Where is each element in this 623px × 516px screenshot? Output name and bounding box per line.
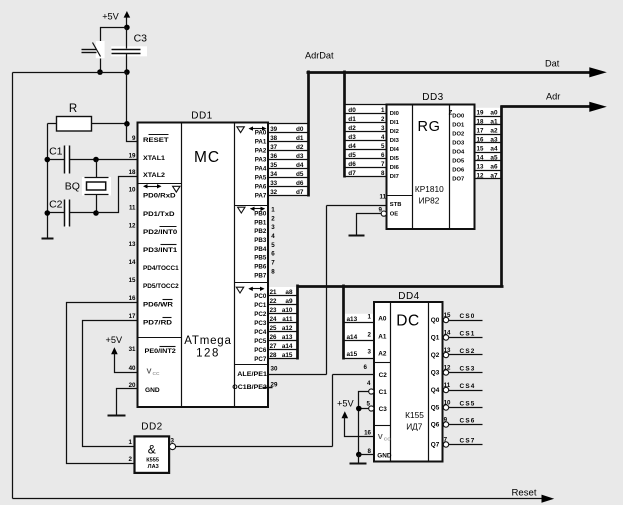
DD4 pin name C3 with bubble, pin number 5 bbox=[367, 401, 388, 414]
svg-text:d0: d0 bbox=[348, 107, 356, 114]
svg-text:31: 31 bbox=[129, 346, 136, 353]
svg-text:PA3: PA3 bbox=[255, 157, 267, 164]
svg-text:PB1: PB1 bbox=[254, 219, 267, 226]
svg-text:39: 39 bbox=[270, 126, 277, 133]
svg-text:16: 16 bbox=[364, 430, 371, 437]
svg-text:a6: a6 bbox=[490, 163, 498, 170]
svg-text:d4: d4 bbox=[296, 162, 304, 169]
DD4 pin name C1 with bubble, pin number 4 bbox=[367, 380, 387, 396]
svg-text:PB3: PB3 bbox=[254, 237, 267, 244]
svg-text:21: 21 bbox=[270, 289, 277, 296]
svg-text:КР1810: КР1810 bbox=[415, 184, 444, 194]
svg-text:30: 30 bbox=[271, 366, 278, 373]
svg-text:13: 13 bbox=[129, 241, 136, 248]
svg-text:PB7: PB7 bbox=[254, 272, 267, 279]
svg-text:1: 1 bbox=[381, 107, 385, 114]
DD1 pin name GND bbox=[145, 387, 160, 394]
svg-text:Q4: Q4 bbox=[431, 387, 440, 394]
svg-text:К555: К555 bbox=[146, 457, 159, 463]
DD1 pin name PD2/INT0 bbox=[143, 227, 178, 236]
DD1 port C direction marker bbox=[236, 287, 264, 293]
svg-text:17: 17 bbox=[129, 313, 136, 320]
svg-text:DD1: DD1 bbox=[191, 111, 213, 122]
svg-text:MC: MC bbox=[194, 149, 220, 166]
net cells a8-a15 (DD1 PC to address bus) bbox=[269, 287, 298, 359]
DD3 pin name OE with inversion bubble, pin number 9 bbox=[379, 206, 399, 217]
svg-text:Q3: Q3 bbox=[431, 370, 440, 377]
svg-text:16: 16 bbox=[477, 136, 484, 143]
svg-text:C3: C3 bbox=[379, 406, 388, 413]
svg-text:13: 13 bbox=[477, 163, 484, 170]
svg-text:XTAL2: XTAL2 bbox=[143, 172, 166, 179]
svg-text:DD2: DD2 bbox=[141, 422, 163, 433]
DD1 left pin numbers 9,19,18,10-17,31,40,20 bbox=[129, 135, 136, 389]
svg-text:25: 25 bbox=[270, 325, 277, 332]
svg-text:PA1: PA1 bbox=[255, 139, 267, 146]
DD3 function label RG bbox=[418, 119, 441, 135]
ground symbol (DD3 OE) bbox=[349, 235, 365, 237]
svg-text:4: 4 bbox=[271, 233, 275, 240]
bus AdrDat horizontal (Dat arrow) bbox=[305, 51, 607, 78]
svg-text:PA0: PA0 bbox=[255, 130, 267, 137]
svg-text:18: 18 bbox=[129, 169, 136, 176]
svg-text:a13: a13 bbox=[282, 334, 293, 341]
capacitor C3 bbox=[111, 28, 147, 73]
net cells a13-a15 (bus to DD4 inputs) bbox=[344, 314, 375, 359]
svg-text:PB0: PB0 bbox=[254, 210, 267, 217]
DD1 pin name PD6/WR bbox=[143, 300, 174, 309]
svg-text:К155: К155 bbox=[405, 410, 424, 420]
wire: junction to DD1 RESET pin 9 bbox=[127, 124, 138, 142]
svg-text:Q5: Q5 bbox=[431, 405, 440, 412]
DD1 type label ATmega 128 bbox=[184, 335, 231, 360]
svg-text:a15: a15 bbox=[282, 352, 293, 359]
svg-text:&: & bbox=[148, 443, 156, 457]
svg-text:OE: OE bbox=[390, 212, 399, 218]
svg-text:1: 1 bbox=[271, 206, 275, 213]
wire: XTAL2 pin 18 to crystal bottom bbox=[97, 177, 138, 213]
svg-text:PD4/TOCC1: PD4/TOCC1 bbox=[143, 265, 179, 272]
net cells d0-d7 (DD1 PA to AdrDat bus) bbox=[269, 124, 309, 196]
svg-text:2: 2 bbox=[271, 215, 275, 222]
DD1 pin name PD4/TOCC1 bbox=[143, 265, 179, 272]
svg-text:C1: C1 bbox=[49, 146, 63, 158]
svg-text:DD3: DD3 bbox=[422, 92, 444, 103]
svg-text:5: 5 bbox=[271, 242, 275, 249]
svg-text:23: 23 bbox=[270, 307, 277, 314]
svg-text:CS1: CS1 bbox=[460, 331, 476, 338]
svg-text:2: 2 bbox=[368, 332, 372, 339]
svg-text:PC4: PC4 bbox=[254, 329, 267, 336]
svg-text:Q2: Q2 bbox=[431, 352, 440, 359]
svg-text:ИР82: ИР82 bbox=[419, 196, 440, 206]
resistor R bbox=[48, 103, 127, 131]
svg-text:a1: a1 bbox=[490, 118, 498, 125]
svg-text:a9: a9 bbox=[285, 298, 293, 305]
svg-text:PD6/WR: PD6/WR bbox=[143, 301, 174, 308]
svg-text:ATmega: ATmega bbox=[184, 335, 231, 347]
svg-text:d3: d3 bbox=[296, 153, 304, 160]
svg-text:PC5: PC5 bbox=[254, 338, 267, 345]
wire: +5V junction to protection-diode branch bbox=[101, 28, 127, 42]
svg-text:DO2: DO2 bbox=[452, 132, 464, 138]
DD3 type label KR1810 IR82 bbox=[415, 184, 444, 206]
wire: DD2 output pin3 to DD4 C2 pin6 bbox=[176, 375, 375, 447]
DD3 pin names DO0-DO7 bbox=[452, 114, 465, 183]
DD2 pin numbers 1,2,3 bbox=[129, 437, 175, 463]
svg-text:37: 37 bbox=[270, 144, 277, 151]
svg-text:d2: d2 bbox=[348, 125, 356, 132]
svg-text:10: 10 bbox=[129, 187, 136, 194]
svg-text:CC: CC bbox=[153, 371, 160, 377]
svg-text:PA7: PA7 bbox=[255, 193, 267, 200]
svg-text:DO6: DO6 bbox=[452, 168, 465, 174]
svg-text:GND: GND bbox=[377, 453, 392, 460]
svg-text:6: 6 bbox=[364, 364, 368, 371]
svg-text:CC: CC bbox=[384, 437, 391, 443]
svg-text:a5: a5 bbox=[490, 154, 498, 161]
svg-text:RESET: RESET bbox=[143, 137, 169, 144]
DD1 pin number 30 bbox=[271, 366, 278, 373]
wire: ground rail for R, C1, C2 bbox=[47, 124, 49, 239]
svg-text:DI5: DI5 bbox=[390, 156, 400, 162]
svg-text:DO4: DO4 bbox=[452, 150, 465, 156]
svg-text:7: 7 bbox=[381, 161, 385, 168]
svg-text:C2: C2 bbox=[379, 372, 388, 379]
svg-text:CS5: CS5 bbox=[460, 401, 476, 408]
bus address horizontal (lower) bbox=[297, 285, 504, 288]
DD2 output inversion bubble bbox=[169, 444, 175, 450]
svg-text:PA6: PA6 bbox=[255, 184, 267, 191]
svg-text:PC0: PC0 bbox=[254, 293, 267, 300]
svg-text:AdrDat: AdrDat bbox=[305, 51, 334, 61]
svg-text:d7: d7 bbox=[296, 189, 304, 196]
svg-text:3: 3 bbox=[271, 224, 275, 231]
svg-text:27: 27 bbox=[270, 343, 277, 350]
bus branch to PC cells a8-a15 bbox=[296, 285, 299, 360]
svg-text:+5V: +5V bbox=[102, 12, 119, 22]
svg-text:12: 12 bbox=[444, 365, 451, 372]
svg-text:CS7: CS7 bbox=[460, 438, 476, 445]
svg-text:a0: a0 bbox=[490, 109, 498, 116]
svg-text:OC1B/PE2: OC1B/PE2 bbox=[232, 384, 267, 391]
svg-text:19: 19 bbox=[129, 153, 136, 160]
DD4 type label K155 ID7 bbox=[405, 410, 424, 432]
IC DD1 -- microcontroller MC ATmega128 chip body bbox=[138, 111, 269, 408]
wire: diode to reset rail bbox=[100, 59, 102, 73]
svg-text:CS2: CS2 bbox=[460, 348, 476, 355]
svg-text:19: 19 bbox=[477, 109, 484, 116]
node: C2 junction dots bbox=[45, 210, 99, 216]
svg-text:PD2/INT0: PD2/INT0 bbox=[143, 229, 178, 236]
svg-text:PB5: PB5 bbox=[254, 255, 267, 262]
svg-text:Adr: Adr bbox=[546, 91, 560, 101]
net cells d0-d7 (bus to DD3 inputs) bbox=[345, 105, 387, 177]
svg-text:15: 15 bbox=[477, 145, 484, 152]
svg-text:13: 13 bbox=[444, 347, 451, 354]
svg-text:18: 18 bbox=[477, 118, 484, 125]
svg-text:d7: d7 bbox=[348, 170, 356, 177]
capacitor C2 bbox=[48, 199, 97, 228]
power +5V supply arrow (top) bbox=[102, 11, 130, 28]
svg-text:ЛА3: ЛА3 bbox=[148, 464, 159, 470]
svg-text:DI0: DI0 bbox=[390, 111, 399, 117]
power +5V supply arrow (DD1 Vcc) bbox=[105, 335, 137, 373]
DD1 pin number 29 bbox=[271, 382, 278, 389]
DD1 pin names PA0-PA7 bbox=[255, 130, 267, 200]
IC DD3 -- register RG KR1810 IR82 chip body bbox=[387, 92, 475, 229]
DD3 pin names DI0-DI7 bbox=[390, 111, 400, 180]
svg-text:DO5: DO5 bbox=[452, 159, 465, 165]
DD1 port D direction marker bbox=[143, 184, 180, 192]
DD4 pin name Vcc, pin number 16 bbox=[364, 430, 391, 443]
node: C1 junction dots bbox=[45, 157, 99, 163]
svg-text:PB6: PB6 bbox=[254, 264, 267, 271]
wire: Reset line to arrow bbox=[13, 488, 555, 503]
ground symbol (crystal circuit) bbox=[42, 238, 54, 240]
DD3 pin name STB and pin number 11 bbox=[380, 194, 402, 208]
svg-text:PC3: PC3 bbox=[254, 320, 267, 327]
svg-text:a14: a14 bbox=[347, 334, 358, 341]
svg-text:14: 14 bbox=[129, 259, 136, 266]
svg-text:d2: d2 bbox=[296, 144, 304, 151]
svg-text:d6: d6 bbox=[296, 180, 304, 187]
DD1 pin name PD7/RD bbox=[143, 318, 173, 327]
svg-text:V: V bbox=[378, 432, 383, 441]
svg-text:a8: a8 bbox=[285, 289, 293, 296]
svg-text:ALE/PE1: ALE/PE1 bbox=[237, 371, 267, 378]
svg-text:PB2: PB2 bbox=[254, 228, 267, 235]
svg-text:6: 6 bbox=[271, 251, 275, 258]
svg-text:C1: C1 bbox=[379, 389, 388, 396]
svg-text:DI7: DI7 bbox=[390, 174, 399, 180]
svg-text:2: 2 bbox=[381, 116, 385, 123]
svg-text:PA2: PA2 bbox=[255, 148, 267, 155]
svg-text:d5: d5 bbox=[296, 171, 304, 178]
wire: DD1 ALE/PE1 pin30 to DD3 STB pin11 bbox=[269, 206, 387, 375]
DD1 pin name PD3/INT1 bbox=[143, 245, 178, 255]
crystal BQ bbox=[65, 160, 111, 213]
svg-text:V: V bbox=[147, 367, 152, 376]
svg-text:DI2: DI2 bbox=[390, 129, 399, 135]
svg-text:DI4: DI4 bbox=[390, 147, 400, 153]
svg-text:C3: C3 bbox=[134, 33, 148, 45]
DD1 pin name ALE/PE1 bbox=[237, 371, 267, 378]
DD4 outputs Q0-Q7 with bubbles, pin numbers, CS0-CS7 nets bbox=[431, 312, 483, 449]
DD4 pin names A0,A1,A2 bbox=[378, 316, 387, 358]
svg-text:Q0: Q0 bbox=[431, 317, 440, 324]
DD1 pin name XTAL1 bbox=[143, 155, 166, 162]
svg-text:CS6: CS6 bbox=[460, 418, 476, 425]
wire: reset net horizontal to left rail bbox=[13, 72, 127, 74]
DD1 pin name Vcc bbox=[147, 367, 160, 378]
svg-text:DI6: DI6 bbox=[390, 165, 400, 171]
wire: DD1 GND pin 20 to ground bbox=[117, 389, 138, 416]
svg-text:11: 11 bbox=[444, 382, 451, 389]
svg-text:a13: a13 bbox=[347, 316, 358, 323]
DD1 right pin numbers 1-8 (port B) bbox=[271, 206, 275, 275]
DD1 port B direction marker bbox=[238, 207, 265, 213]
svg-text:STB: STB bbox=[390, 202, 402, 208]
svg-text:15: 15 bbox=[444, 312, 451, 319]
svg-text:d5: d5 bbox=[348, 152, 356, 159]
svg-text:A2: A2 bbox=[378, 351, 387, 358]
svg-text:d1: d1 bbox=[348, 116, 356, 123]
DD4 function label DC bbox=[396, 313, 420, 330]
svg-text:BQ: BQ bbox=[65, 181, 80, 193]
svg-text:a14: a14 bbox=[282, 343, 293, 350]
svg-text:DD4: DD4 bbox=[398, 291, 420, 302]
svg-text:C2: C2 bbox=[49, 199, 63, 211]
bus AdrDat vertical branch to PA cells bbox=[307, 71, 310, 197]
svg-text:128: 128 bbox=[196, 348, 220, 360]
svg-text:DO1: DO1 bbox=[452, 123, 465, 129]
DD4 pin name C2, pin number 6 bbox=[364, 364, 388, 379]
svg-text:29: 29 bbox=[271, 382, 278, 389]
wire: DD1 PD7/RD pin17 to DD2 input 1 bbox=[83, 321, 138, 447]
svg-text:34: 34 bbox=[270, 171, 277, 178]
svg-text:7: 7 bbox=[271, 260, 275, 267]
svg-text:3: 3 bbox=[381, 125, 385, 132]
DD1 port A direction marker bbox=[237, 126, 267, 132]
svg-text:35: 35 bbox=[270, 162, 277, 169]
DD1 pin names PC0-PC7 bbox=[254, 293, 267, 363]
svg-text:DI3: DI3 bbox=[390, 138, 400, 144]
svg-text:32: 32 bbox=[270, 189, 277, 196]
svg-text:a4: a4 bbox=[490, 145, 498, 152]
svg-text:GND: GND bbox=[145, 387, 160, 394]
svg-text:10: 10 bbox=[444, 400, 451, 407]
wire: DD3 OE to ground bbox=[357, 214, 382, 236]
svg-text:DI1: DI1 bbox=[390, 120, 400, 126]
svg-text:+5V: +5V bbox=[105, 335, 122, 345]
wire: C3 down to resistor junction bbox=[126, 73, 128, 124]
svg-text:PC6: PC6 bbox=[254, 347, 267, 354]
svg-text:14: 14 bbox=[444, 330, 451, 337]
DD1 pin name XTAL2 bbox=[143, 172, 166, 179]
power +5V supply arrow (DD4 Vcc) bbox=[337, 398, 375, 436]
svg-text:8: 8 bbox=[381, 170, 385, 177]
svg-text:40: 40 bbox=[129, 365, 136, 372]
svg-text:Q6: Q6 bbox=[431, 422, 440, 429]
svg-text:6: 6 bbox=[381, 152, 385, 159]
svg-text:15: 15 bbox=[129, 277, 136, 284]
wire: DD4 C1,C3 enables to ground rail bbox=[359, 392, 369, 455]
svg-text:a10: a10 bbox=[282, 307, 293, 314]
svg-text:38: 38 bbox=[270, 135, 277, 142]
svg-text:d1: d1 bbox=[296, 135, 304, 142]
svg-text:12: 12 bbox=[129, 223, 136, 230]
svg-text:a12: a12 bbox=[282, 325, 293, 332]
svg-text:d3: d3 bbox=[348, 134, 356, 141]
svg-text:11: 11 bbox=[129, 205, 136, 212]
svg-text:28: 28 bbox=[270, 352, 277, 359]
svg-text:a15: a15 bbox=[347, 351, 358, 358]
svg-text:36: 36 bbox=[270, 153, 277, 160]
svg-text:CS0: CS0 bbox=[460, 313, 476, 320]
svg-text:CS4: CS4 bbox=[460, 383, 476, 390]
diode VD (reset protection, drawn as slashed capacitor) bbox=[82, 41, 105, 58]
svg-text:PD1/TxD: PD1/TxD bbox=[143, 211, 175, 218]
svg-text:2: 2 bbox=[129, 456, 133, 463]
svg-text:a2: a2 bbox=[490, 127, 498, 134]
svg-text:24: 24 bbox=[270, 316, 277, 323]
ground symbol (DD1 GND) bbox=[108, 415, 126, 417]
svg-text:9: 9 bbox=[132, 135, 136, 142]
svg-text:1: 1 bbox=[129, 439, 133, 446]
svg-text:1: 1 bbox=[368, 314, 372, 321]
svg-text:a7: a7 bbox=[490, 172, 498, 179]
net cells a0-a7 (DD3 outputs to Adr bus) bbox=[475, 108, 502, 180]
DD1 pin name PD0/RxD bbox=[143, 193, 176, 200]
bus branch to DD4 inputs a13-a15 bbox=[342, 285, 345, 360]
svg-text:PC1: PC1 bbox=[254, 302, 267, 309]
svg-text:d4: d4 bbox=[348, 143, 356, 150]
svg-text:33: 33 bbox=[270, 180, 277, 187]
svg-text:R: R bbox=[69, 103, 77, 115]
svg-text:RG: RG bbox=[418, 119, 441, 135]
svg-text:3: 3 bbox=[368, 349, 372, 356]
wire: left reset rail (vertical) bbox=[12, 73, 14, 499]
svg-text:ИД7: ИД7 bbox=[406, 422, 423, 432]
node: GND junction dot bbox=[356, 452, 362, 458]
svg-text:A0: A0 bbox=[378, 316, 387, 323]
DD1 function label MC bbox=[194, 149, 220, 166]
DD1 pin name PD5/TOCC2 bbox=[143, 283, 179, 290]
svg-text:+5V: +5V bbox=[337, 398, 354, 408]
svg-text:DO3: DO3 bbox=[452, 141, 465, 147]
svg-text:PD5/TOCC2: PD5/TOCC2 bbox=[143, 283, 179, 290]
svg-text:DC: DC bbox=[396, 313, 420, 330]
svg-text:PC7: PC7 bbox=[254, 356, 267, 363]
svg-text:PC2: PC2 bbox=[254, 311, 267, 318]
svg-text:a3: a3 bbox=[490, 136, 498, 143]
IC DD4 -- decoder DC K155 ID7 chip body bbox=[374, 291, 443, 462]
svg-text:Q7: Q7 bbox=[431, 442, 440, 449]
svg-text:5: 5 bbox=[381, 143, 385, 150]
logic gate DD2 (K555LA3 NAND) body bbox=[135, 422, 170, 473]
bus Adr vertical bbox=[500, 106, 503, 288]
svg-text:17: 17 bbox=[477, 127, 484, 134]
svg-text:PD0/RxD: PD0/RxD bbox=[143, 193, 176, 200]
DD3 tri-state marker Z bbox=[449, 111, 453, 117]
node: +5V junction dot bbox=[124, 25, 130, 31]
svg-text:XTAL1: XTAL1 bbox=[143, 155, 166, 162]
svg-text:PA5: PA5 bbox=[255, 175, 267, 182]
svg-text:4: 4 bbox=[381, 134, 385, 141]
svg-text:16: 16 bbox=[129, 295, 136, 302]
bus Adr horizontal (Adr arrow) bbox=[501, 91, 607, 112]
DD1 pin name RESET bbox=[143, 135, 169, 145]
svg-text:PA4: PA4 bbox=[255, 166, 267, 173]
svg-text:DO0: DO0 bbox=[452, 114, 464, 120]
svg-text:DO7: DO7 bbox=[452, 177, 464, 183]
wire: DD1 PD6/WR pin16 to DD2 input 2 bbox=[67, 303, 138, 464]
node: C1/C3 junction dot bbox=[356, 406, 362, 412]
DD1 pin name OC1B/PE2 bbox=[232, 384, 272, 391]
svg-text:12: 12 bbox=[477, 172, 484, 179]
wire: DD4 GND pin 8 bbox=[359, 455, 375, 464]
DD1 pin name PD1/TxD bbox=[143, 211, 175, 218]
ground symbol (DD4 GND) bbox=[350, 463, 367, 465]
svg-text:22: 22 bbox=[270, 298, 277, 305]
svg-text:a11: a11 bbox=[282, 316, 293, 323]
svg-text:Reset: Reset bbox=[511, 488, 536, 499]
svg-text:d0: d0 bbox=[296, 126, 304, 133]
node: reset net junction dots bbox=[97, 69, 130, 75]
svg-text:11: 11 bbox=[380, 194, 387, 201]
DD1 pin name PE0/INT2 bbox=[145, 347, 177, 356]
